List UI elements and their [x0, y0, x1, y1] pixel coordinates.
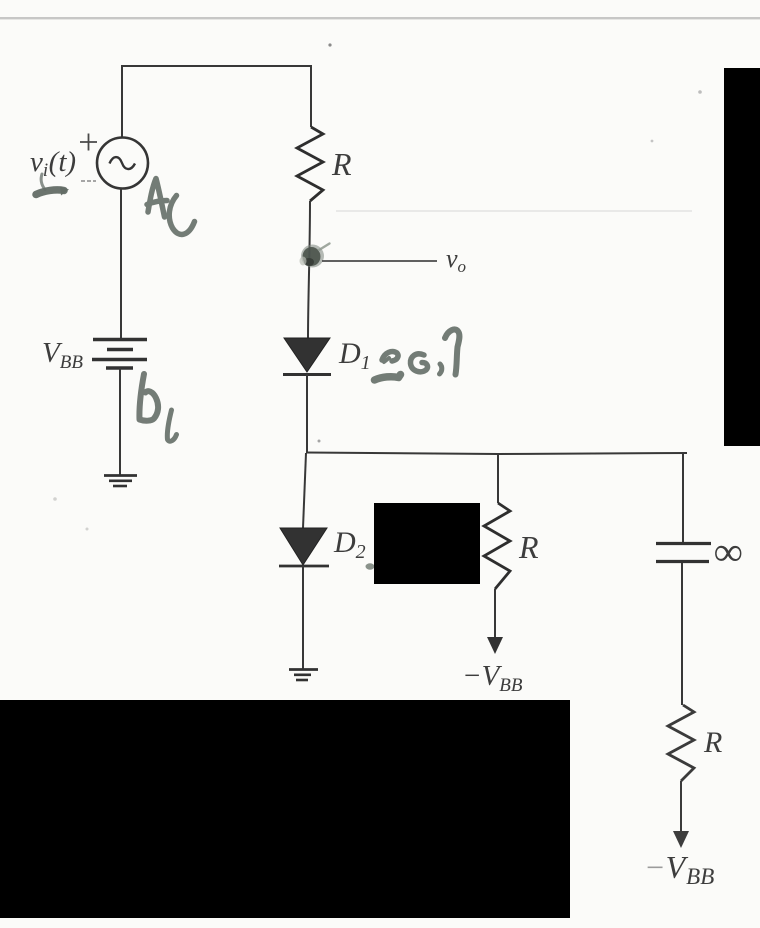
capacitor C infinite: [656, 544, 711, 562]
redaction box right: [724, 68, 760, 446]
wire and arrow to -VBB (middle): [487, 589, 503, 654]
wire source top lead: [121, 65, 123, 137]
battery VBB: [92, 340, 147, 369]
voltage source vi(t) U1: [97, 138, 148, 189]
handwritten arrow annotation: [36, 174, 69, 196]
wire capacitor to R3: [681, 563, 683, 705]
svg-text:vi(t): vi(t): [30, 146, 76, 181]
diode D1: [283, 338, 331, 375]
wire top horizontal: [122, 65, 311, 67]
wire battery to ground: [119, 368, 121, 475]
wire junction to capacitor: [682, 453, 684, 543]
wire junction to D2: [303, 453, 306, 528]
+ polarity mark: [80, 134, 97, 151]
svg-text:∞: ∞: [714, 529, 743, 574]
svg-text:VBB: VBB: [42, 337, 83, 373]
wire and arrow to -VBB (right): [673, 781, 689, 848]
wire junction to R2: [497, 454, 499, 503]
svg-text:D2: D2: [333, 526, 366, 563]
svg-text:−VBB: −VBB: [462, 660, 523, 696]
wire top to resistor R1: [310, 65, 312, 127]
svg-text:vo: vo: [446, 244, 466, 276]
wire node to vo label: [322, 260, 437, 262]
ground left branch: [104, 476, 137, 487]
wire source to battery: [120, 188, 122, 339]
diode D2: [279, 528, 329, 566]
wire D1 to junction: [306, 374, 308, 453]
resistor R2 (middle): [484, 503, 510, 589]
wire D2 to ground: [302, 566, 304, 669]
wire R1 to node: [308, 201, 310, 338]
svg-text:−VBB: −VBB: [644, 849, 714, 889]
redaction box middle: [374, 503, 480, 584]
handwritten DC annotation: [139, 374, 176, 441]
svg-text:R: R: [331, 146, 352, 182]
handwritten AC annotation: [147, 179, 195, 235]
redaction box bottom: [0, 700, 570, 918]
resistor R3 (right): [668, 705, 694, 781]
handwritten 0.7 annotation: [375, 329, 460, 380]
svg-text:R: R: [518, 529, 539, 565]
svg-text:R: R: [703, 726, 722, 759]
ink dot annotation: [366, 563, 375, 569]
- polarity mark: [81, 180, 96, 182]
node vo ink smudge: [300, 244, 330, 268]
svg-text:D1: D1: [338, 337, 371, 374]
ground D2 branch: [289, 670, 318, 681]
resistor R1 (top): [297, 127, 323, 201]
wire junction horizontal: [306, 453, 687, 455]
